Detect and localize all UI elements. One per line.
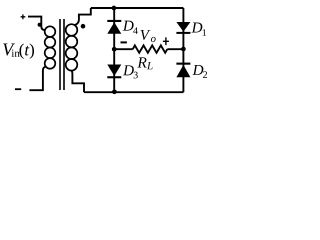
diode D3 xyxy=(107,65,121,79)
label D3 xyxy=(123,65,138,78)
wire primary bottom lead xyxy=(29,67,46,91)
label D2 xyxy=(192,65,207,78)
diode D2 xyxy=(176,63,190,78)
wire secondary bottom lead xyxy=(72,71,85,93)
wire middle right xyxy=(167,48,183,50)
minus sign source xyxy=(15,88,21,90)
wire top rail xyxy=(91,7,184,9)
node junction dot right middle xyxy=(181,47,186,52)
wire secondary top lead xyxy=(75,8,91,25)
wire bottom rail xyxy=(84,91,183,93)
wire primary top lead xyxy=(28,17,45,31)
minus sign Vo xyxy=(121,41,127,43)
node junction dot top rail xyxy=(112,6,117,11)
node junction dot left middle xyxy=(112,47,117,52)
node junction dot bottom rail xyxy=(112,89,117,94)
label Vo xyxy=(141,30,156,42)
diode D4 xyxy=(107,20,121,34)
resistor RL zigzag xyxy=(133,45,168,52)
diode D1 xyxy=(176,22,190,34)
inductor secondary winding xyxy=(66,24,78,36)
label RL xyxy=(137,57,152,69)
label D4 xyxy=(123,21,138,34)
label Vin(t) xyxy=(3,44,34,59)
inductor primary winding xyxy=(45,26,56,37)
transformer core line right xyxy=(63,19,65,90)
wire middle left xyxy=(114,48,133,50)
transformer core line left xyxy=(59,19,61,90)
wire left branch xyxy=(113,8,115,92)
transformer secondary phasing dot xyxy=(81,24,86,29)
wire right branch xyxy=(182,8,184,92)
transformer primary phasing dot xyxy=(38,23,42,27)
plus sign source xyxy=(21,14,26,19)
label D1 xyxy=(191,23,206,36)
plus sign Vo xyxy=(163,37,169,45)
